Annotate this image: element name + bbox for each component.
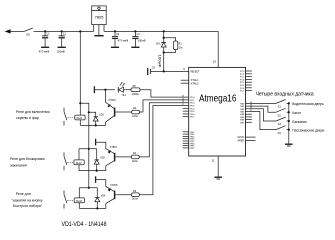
switch S2	[276, 108, 289, 112]
wire: coil 1 bottom lead	[79, 120, 81, 126]
pins PB0-PB7 stubs (left)	[183, 132, 195, 150]
node: VD3 anode on bottom line	[96, 170, 98, 172]
svg-text:S3: S3	[278, 122, 282, 126]
wire: +12V feed down to relay 1 coil	[79, 31, 81, 115]
wire: R1 bottom jog back to reset line	[164, 52, 176, 54]
wire: distribution line down to relay 3	[88, 112, 90, 187]
svg-text:1кОм: 1кОм	[132, 198, 138, 201]
LED HL1	[118, 82, 126, 97]
pin AREF stub	[238, 140, 256, 143]
node: relay 1 +12 branch	[79, 102, 81, 104]
wire: sensor common line	[288, 103, 290, 143]
svg-text:470 мкФ: 470 мкФ	[39, 50, 50, 54]
svg-text:1кОм: 1кОм	[132, 160, 138, 163]
svg-text:Быстрого набора": Быстрого набора"	[13, 204, 43, 208]
svg-text:KT815: KT815	[110, 184, 118, 187]
svg-text:VD4: VD4	[101, 195, 106, 198]
diode VD3 (flyback relay 2, cathode up)	[94, 157, 105, 171]
svg-text:S2: S2	[278, 113, 282, 117]
svg-text:Капот: Капот	[292, 111, 301, 115]
wire: jog to R1 top	[164, 38, 176, 41]
svg-text:VD1-VD4 - 1N4148: VD1-VD4 - 1N4148	[62, 221, 107, 228]
terminal bar: emitter relay 2	[95, 139, 97, 146]
svg-text:Пассажирские двери: Пассажирские двери	[292, 128, 324, 132]
switch S4	[276, 126, 289, 130]
diode VD1 1N4148 (on reset line, cathode up)	[156, 42, 166, 71]
wire: R5 to chip PD0	[140, 90, 189, 97]
wire: PA1 to switch S2	[246, 106, 277, 112]
wire: chip GND pin 11 down	[217, 156, 219, 177]
transistor Q2 KT815	[106, 146, 118, 166]
ground: 7805 middle pin	[94, 35, 103, 37]
switch S3	[276, 117, 289, 121]
wire: bar to LED anode	[94, 89, 115, 91]
svg-text:VD3: VD3	[100, 157, 105, 160]
wire: Q3 base to R6	[115, 194, 132, 196]
wire: relay 2 left edge to coil	[78, 149, 80, 160]
wire: R2 to chip PD2	[140, 100, 189, 112]
wire: relay 3 top edge	[79, 187, 97, 189]
svg-text:XTAL2: XTAL2	[191, 82, 200, 86]
relay 2 contact	[64, 152, 74, 170]
svg-text:Atmega16: Atmega16	[199, 94, 237, 105]
wire: coil 2 bottom lead	[78, 165, 80, 171]
svg-text:AREF: AREF	[238, 140, 245, 143]
transistor Q1 KT815	[105, 99, 116, 122]
svg-text:7805: 7805	[95, 14, 105, 19]
node: junction reset branch on +5V rail	[163, 30, 165, 32]
switch S5	[24, 28, 35, 31]
svg-text:Рел1: Рел1	[77, 116, 83, 120]
node: VD2 anode on bottom line	[95, 124, 97, 126]
node: junction C2 on rail	[44, 30, 46, 32]
svg-text:1кОм: 1кОм	[132, 115, 138, 118]
resistor R1 10k (vertical)	[173, 41, 183, 53]
resistor R2 1kOhm (Q1 base)	[132, 107, 140, 118]
svg-text:11: 11	[212, 159, 215, 163]
node: S4 junction	[288, 129, 290, 131]
relay coil Рел3	[74, 198, 84, 203]
wire: R6 to chip PD4	[139, 106, 188, 195]
pin numbers 40-37 (PA0-PA3)	[250, 102, 253, 112]
wire: relay 2 bottom line to collector riser	[79, 166, 106, 171]
pin AVCC stub	[237, 136, 255, 139]
ground: chip GND	[214, 177, 222, 179]
pin XTAL2 stub	[181, 82, 189, 84]
wire: coil 3 bottom lead	[78, 203, 80, 209]
wire: Q1 emitter riser to tap	[105, 90, 107, 103]
resistor R5 1000 Ohm (LED)	[131, 85, 140, 96]
svg-text:Водительская дверь: Водительская дверь	[292, 102, 324, 106]
diode VD2 (flyback relay 1, cathode up)	[93, 114, 104, 126]
svg-text:RESET: RESET	[191, 69, 200, 73]
node: VD4 anode on bottom line	[96, 207, 98, 209]
capacitor C1 100nF	[57, 31, 67, 53]
ground: sensor common	[285, 144, 293, 146]
terminal bar: emitter relay 3	[95, 176, 97, 183]
svg-text:Багажник: Багажник	[292, 120, 307, 124]
svg-text:S4: S4	[278, 131, 282, 135]
op-amp U2 Atmega16 microcontroller body	[189, 67, 246, 156]
transistor Q3 KT815	[106, 184, 118, 204]
svg-text:1000м: 1000м	[132, 93, 139, 96]
pin numbers 14-17 (PD0-PD3)	[182, 96, 185, 106]
relay 1 contact	[64, 108, 75, 126]
svg-text:VD2: VD2	[99, 114, 104, 117]
node: S3 junction	[288, 120, 290, 122]
svg-text:100нФ: 100нФ	[157, 55, 161, 69]
svg-text:100нФ: 100нФ	[137, 39, 145, 43]
node: relay 2 feed junction	[88, 148, 90, 150]
node: bottom of VD1/R1 pair	[163, 51, 165, 53]
wire: relay 3 bottom line to collector riser	[79, 204, 106, 209]
svg-text:"нажатия на кнопку: "нажатия на кнопку	[11, 198, 42, 202]
pin XTAL1 stub	[181, 79, 189, 81]
node: reset junction	[163, 70, 165, 72]
pins PD0-PD7 stubs (left)	[183, 97, 196, 119]
svg-text:Четыре входных датчика: Четыре входных датчика	[256, 91, 315, 97]
relay 3 contact	[64, 191, 74, 209]
switch S1	[276, 100, 289, 104]
wire: reset branch down from rail	[163, 31, 165, 42]
wire: PA0 to switch S1	[246, 102, 277, 104]
node: emitter tap junction	[104, 89, 106, 91]
svg-text:HL1: HL1	[122, 95, 127, 97]
svg-text:зажигания: зажигания	[10, 163, 27, 167]
svg-text:470 мкФ: 470 мкФ	[118, 39, 129, 43]
svg-text:S5: S5	[26, 32, 30, 36]
wire: branch to VD2 cathode	[89, 112, 96, 117]
wire: +5V rail from 7805 output to chip VCC corner	[104, 30, 218, 32]
node: junction relay feed on rail	[79, 30, 81, 32]
wire: switch to 7805 input (top +12V rail)	[36, 30, 94, 32]
node: top of VD1/R1 parallel pair	[163, 37, 165, 39]
wire: relay 2 right edge to VD3	[96, 149, 98, 160]
capacitor C3 100nF	[131, 31, 145, 47]
pins PC0-PC7 stubs (right)	[240, 71, 252, 93]
svg-text:Реле для: Реле для	[16, 192, 31, 196]
svg-text:KT815: KT815	[109, 99, 117, 102]
wire: arrow to switch S5	[11, 30, 25, 32]
node: junction C4 on +5V rail	[114, 30, 116, 32]
wire: reset net to chip pin 9	[151, 70, 189, 72]
resistor R6 1kOhm (Q3 base)	[132, 190, 140, 201]
svg-text:VD1: VD1	[156, 42, 161, 45]
terminal bar: emitter/LED common (relay 1)	[93, 86, 95, 93]
wire: relay 3 right edge to VD4	[96, 188, 98, 198]
wire: relay 1 bottom line to collector riser	[80, 122, 105, 125]
capacitor C2 470uF	[39, 31, 50, 53]
svg-text:сирены и фар: сирены и фар	[16, 116, 39, 120]
pins PA0-PA7 labels and stubs (right)	[240, 102, 252, 124]
svg-text:Рел2: Рел2	[76, 161, 82, 165]
relay coil Рел1	[75, 115, 85, 120]
wire: Q2 base to R4	[115, 156, 132, 158]
node: S1 junction	[288, 102, 290, 104]
wire: Q1 base to R2	[115, 111, 132, 113]
node: VD2 top branch	[88, 111, 90, 113]
wire: jog to distribution line	[80, 103, 89, 112]
voltage regulator U1 7805	[92, 6, 107, 35]
wire: VCC drop to chip pin 10	[217, 31, 219, 67]
node: junction C3 on +5V rail	[134, 30, 136, 32]
svg-text:S1: S1	[278, 105, 282, 109]
svg-text:KT815: KT815	[110, 146, 118, 149]
wire: PA2 to switch S3	[246, 109, 277, 121]
svg-text:100нФ: 100нФ	[57, 50, 65, 54]
capacitor C5 100nF on reset	[148, 55, 162, 76]
diode VD4 (flyback relay 3, cathode up)	[95, 195, 106, 209]
capacitor C4 470uF	[111, 31, 128, 47]
wire: LED to R5	[124, 89, 131, 91]
svg-text:Реле для блокировки: Реле для блокировки	[10, 157, 45, 161]
wire: PA3 to switch S4	[246, 112, 277, 130]
node: relay 3 feed junction	[88, 187, 90, 189]
relay coil Рел2	[74, 160, 84, 165]
resistor R4 1kOhm (Q2 base)	[131, 152, 139, 163]
wire: relay 2 top edge	[79, 148, 97, 150]
power input arrow	[5, 29, 11, 33]
svg-text:10: 10	[213, 59, 217, 63]
wire: relay 3 left edge to coil	[78, 188, 80, 198]
node: S2 junction	[288, 111, 290, 113]
wire: bar to Q3 emitter	[96, 180, 106, 187]
svg-text:Реле для включения: Реле для включения	[16, 110, 50, 114]
wire: R4 to chip PD3	[139, 103, 189, 157]
svg-text:Рел3: Рел3	[76, 199, 82, 203]
wire: bar to Q2 emitter	[96, 142, 106, 148]
node: junction C1 on rail	[61, 30, 63, 32]
